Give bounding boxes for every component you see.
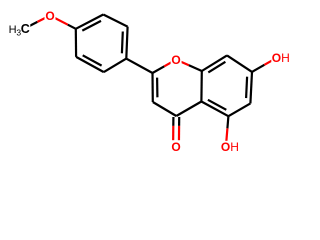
wire bond C5'-C4' (ring B left) — [75, 29, 77, 57]
wire bond C6'-C5' (double, ring B bottom-left) — [76, 55, 104, 72]
wire bond C4-C4a — [176, 102, 201, 117]
wire bond O-C4' (methoxy to ring) — [50, 16, 76, 29]
wire bond C8-C7 — [227, 55, 252, 72]
wire bond C1'-C6' (ring B bottom-right) — [104, 59, 127, 73]
wire bond C7-OH — [252, 58, 277, 72]
wire bond C6-C5 — [228, 103, 250, 116]
wire bond C4'-C3' (double, ring B top-left) — [76, 15, 104, 31]
wire bond C4a-C8a (fusion) — [200, 71, 203, 102]
wire bond C2-O1 — [153, 60, 177, 73]
wire bond C5-C4a (double) — [201, 100, 228, 116]
wire bond C8a-C8 (double) — [202, 55, 227, 72]
svg-text:O: O — [45, 9, 54, 23]
wire bond C7-C6 (double) — [246, 72, 252, 104]
svg-text:OH: OH — [221, 140, 239, 154]
wire bond C3-C4 — [153, 102, 177, 116]
svg-text:O: O — [171, 140, 180, 154]
wire bond C3'-C2' (ring B top-right) — [103, 15, 127, 27]
wire bond C4=O (ketone double) — [173, 117, 179, 147]
wire bond O1-C8a — [176, 60, 202, 71]
svg-text:O: O — [171, 53, 180, 67]
wire bond C1'-C2 (ring link) — [126, 59, 152, 73]
wire bond C5-OH — [226, 116, 229, 147]
label backdrops — [3, 10, 290, 154]
wire bond C2-C3 (double) — [153, 73, 158, 102]
wire bond C2'-C1' (double, ring B right) — [122, 27, 128, 59]
wire bond H3C-O (methoxy) — [25, 16, 50, 29]
svg-text:OH: OH — [272, 51, 290, 65]
molecule: acacetin (5,7-dihydroxy-2-(4-methoxyphenyl)-4H-chromen-4-one) — [0, 0, 300, 162]
